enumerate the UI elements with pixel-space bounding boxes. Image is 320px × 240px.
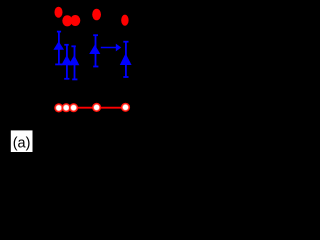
error bar EB3 top cap xyxy=(71,45,75,47)
error bar EB2 top cap xyxy=(64,44,68,46)
red atom E3 xyxy=(70,15,80,26)
chain site C4 xyxy=(92,103,101,112)
error bar EB3 stem xyxy=(74,46,76,79)
chain site C3 xyxy=(69,103,78,112)
error bar EB2 stem xyxy=(66,45,68,79)
error bar EB3 bottom cap xyxy=(72,78,77,80)
chain site C2 xyxy=(62,103,71,112)
blue triangle T3 xyxy=(68,55,79,65)
red atom E2 xyxy=(62,15,72,26)
error bar EB4 top cap xyxy=(93,34,98,36)
error bar EB1 stem xyxy=(58,32,60,65)
error bar EB2 bottom cap xyxy=(64,78,69,80)
error bar EB1 top cap xyxy=(57,31,61,33)
blue triangle T1 xyxy=(53,41,64,50)
error bar EB1 bottom cap xyxy=(55,63,62,65)
red atom E1 xyxy=(55,7,63,18)
chain site C1 xyxy=(54,103,63,112)
red atom E4 xyxy=(92,9,101,21)
svg-text:(a): (a) xyxy=(13,135,31,151)
label (a) box xyxy=(11,130,33,152)
error bar EB4 bottom cap xyxy=(93,66,98,68)
error bar EB4 stem xyxy=(95,35,97,66)
error bar EB5 bottom cap xyxy=(123,76,128,78)
blue triangle T5 xyxy=(120,53,132,65)
displacement arrow xyxy=(101,47,117,49)
red chain line xyxy=(57,107,126,109)
blue triangle T2 xyxy=(61,55,72,65)
red atom E5 xyxy=(121,15,128,26)
error bar EB5 top cap xyxy=(123,41,128,43)
chain site C5 xyxy=(121,103,130,112)
blue triangle T4 xyxy=(89,45,100,54)
error bar EB5 stem xyxy=(125,42,127,77)
